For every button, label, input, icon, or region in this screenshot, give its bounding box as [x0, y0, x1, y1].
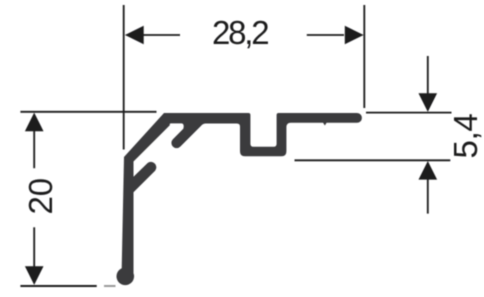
svg-text:28,2: 28,2 [212, 14, 268, 51]
dimension line: upper leader of 5,4 [427, 56, 429, 94]
arrowhead: right arrow of dimension 28,2 [345, 26, 364, 45]
arrowhead: left arrow of dimension 28,2 [125, 26, 144, 45]
dimension line: lower stub of 20 [33, 227, 35, 266]
dimension line: right stub of 28,2 [307, 34, 344, 36]
dimension line: upper stub of 20 [33, 131, 35, 169]
extension line: top extension of dimension 5,4 [366, 112, 452, 114]
extension line: bottom extension of dimension 20 [20, 285, 96, 287]
extension line: right extension of dimension 28,2 [363, 5, 365, 108]
arrowhead: down arrow of dimension 20 [25, 266, 44, 285]
arrowhead: up arrow of dimension 5,4 [419, 161, 438, 180]
gray dash remnant left of foot bulb [104, 285, 116, 287]
extension line: top extension of dimension 20 [20, 111, 156, 113]
extension line: bottom extension of dimension 5,4 [295, 159, 451, 161]
dimension line: left stub of 28,2 [143, 34, 180, 36]
dimension line: lower leader of 5,4 [427, 180, 429, 214]
svg-text:20: 20 [22, 178, 59, 215]
arrowhead: up arrow of dimension 20 [25, 113, 44, 132]
extension line: left extension of dimension 28,2 [123, 5, 125, 150]
svg-text:5,4: 5,4 [447, 114, 484, 159]
profile cross-section (aluminium glazing-bead outline with top bar, U-channel, diagonal web, two clip fingers, leg and foot bulb) [116, 113, 361, 285]
arrowhead: down arrow of dimension 5,4 [419, 93, 438, 112]
